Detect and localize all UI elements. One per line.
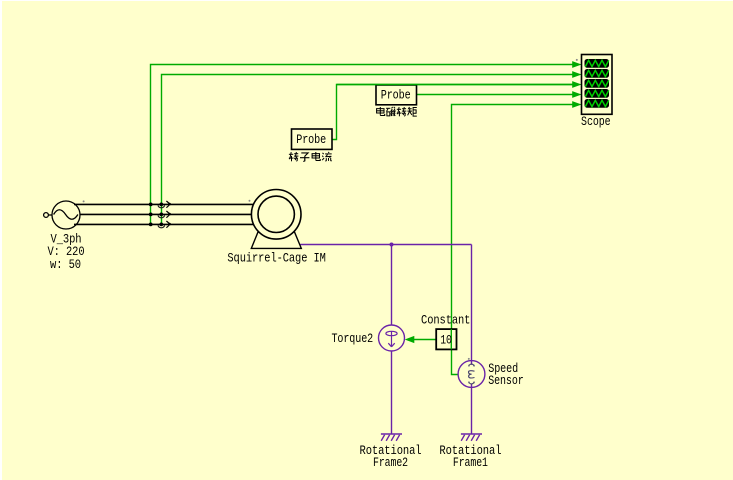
svg-text:V: 220: V: 220: [48, 245, 85, 259]
svg-text:w: 50: w: 50: [50, 258, 81, 272]
svg-text:Probe: Probe: [381, 88, 411, 102]
svg-text:10: 10: [440, 334, 452, 348]
svg-text:Scope: Scope: [581, 115, 611, 129]
svg-text:Frame2: Frame2: [373, 456, 408, 470]
svg-text:Sensor: Sensor: [488, 374, 524, 388]
svg-text:Torque2: Torque2: [331, 332, 373, 346]
svg-text:Probe: Probe: [296, 133, 326, 147]
svg-text:Constant: Constant: [421, 314, 470, 328]
svg-text:Frame1: Frame1: [453, 456, 488, 470]
svg-text:Squirrel-Cage IM: Squirrel-Cage IM: [227, 251, 325, 265]
